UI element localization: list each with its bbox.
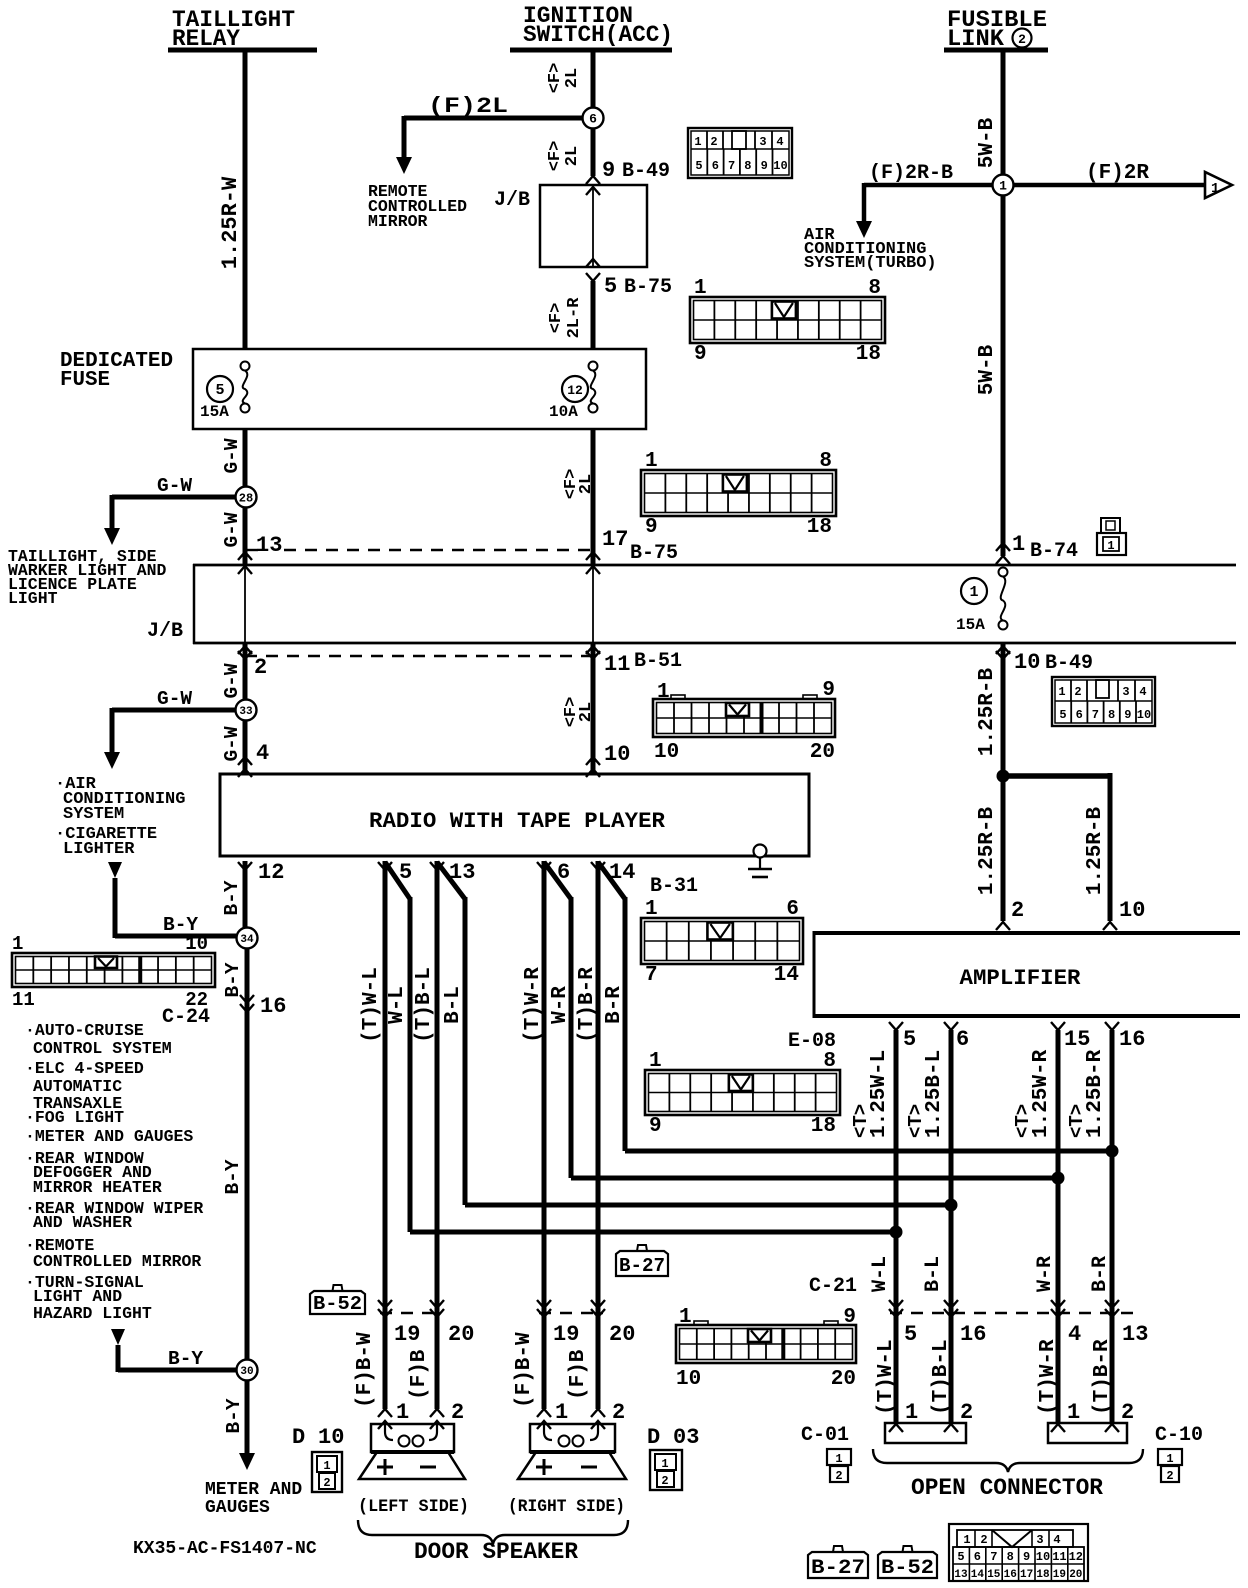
svg-text:1.25R-B: 1.25R-B: [1084, 806, 1107, 895]
svg-text:(LEFT SIDE): (LEFT SIDE): [358, 1497, 469, 1517]
wire 1.25R-B J/B to junction dot: [1001, 643, 1006, 776]
svg-text:14: 14: [971, 1569, 985, 1581]
svg-text:B-27: B-27: [811, 1557, 865, 1580]
svg-text:18: 18: [1036, 1569, 1050, 1581]
svg-text:5: 5: [904, 1322, 917, 1347]
connector pictorial B-49 (top): [688, 128, 792, 178]
svg-text:1: 1: [1211, 181, 1219, 197]
svg-text:2: 2: [960, 1400, 973, 1425]
svg-text:2L: 2L: [563, 146, 582, 166]
svg-text:1: 1: [969, 584, 978, 601]
svg-text:9: 9: [602, 158, 615, 183]
svg-text:6: 6: [786, 898, 799, 921]
svg-text:<F>: <F>: [547, 303, 566, 334]
pin 1 B-74 marker: [996, 532, 1078, 564]
svg-text:2: 2: [1074, 685, 1081, 699]
connector icon C-01: [827, 1449, 851, 1483]
wire G-W fuse 5 to node 28: [243, 429, 248, 488]
svg-text:03: 03: [673, 1425, 699, 1450]
wire 1.25R-B to amplifier pin 2: [996, 776, 1010, 930]
wire label 1.25R-B to pin 2: [976, 806, 999, 895]
svg-text:W-R: W-R: [549, 986, 572, 1024]
dedicated fuse box: [60, 349, 646, 429]
wire 5W-B fusible link to node 1: [1001, 50, 1006, 175]
svg-text:10: 10: [773, 159, 787, 173]
pin 12 marker radio: [238, 860, 284, 885]
svg-text:4: 4: [1053, 1533, 1060, 1547]
pin 5 marker radio: [378, 860, 412, 885]
svg-text:B-L: B-L: [922, 1256, 945, 1292]
svg-text:7: 7: [728, 159, 735, 173]
svg-text:12: 12: [258, 860, 284, 885]
svg-text:1: 1: [963, 1533, 970, 1547]
wire (F)2R to right sheet arrow: [1014, 183, 1205, 188]
svg-text:1: 1: [835, 1452, 842, 1466]
fuse 5 15A: [200, 362, 250, 422]
connector pictorial C-24: [12, 933, 215, 1029]
svg-text:1.25R-W: 1.25R-W: [218, 176, 243, 269]
svg-text:1: 1: [555, 1400, 568, 1425]
svg-text:1: 1: [1107, 539, 1114, 553]
svg-text:9: 9: [649, 1115, 662, 1138]
wire label (T)W-R lower: [1037, 1339, 1060, 1415]
speaker right (door speaker right side): [518, 1424, 626, 1479]
svg-text:1: 1: [1058, 685, 1065, 699]
svg-text:G-W: G-W: [221, 438, 243, 473]
svg-text:G-W: G-W: [157, 475, 192, 497]
label C-01: [801, 1424, 849, 1447]
svg-text:5: 5: [903, 1027, 916, 1052]
svg-text:·METER AND GAUGES: ·METER AND GAUGES: [25, 1127, 193, 1146]
svg-text:2: 2: [661, 1474, 668, 1488]
connector C-21 crossing marker x=896: [889, 1300, 903, 1317]
wire label B-Y below node 30: [223, 1398, 245, 1433]
svg-text:AND WASHER: AND WASHER: [33, 1213, 132, 1232]
svg-text:2: 2: [1166, 1469, 1173, 1483]
label METER AND GAUGES: [205, 1480, 302, 1518]
pin 10 marker: [586, 742, 630, 777]
connector C-21 crossing marker x=1058: [1051, 1300, 1065, 1317]
svg-text:10: 10: [185, 933, 208, 955]
connector C-21 crossing marker x=951: [944, 1300, 958, 1317]
svg-text:1: 1: [999, 179, 1007, 194]
svg-text:1: 1: [645, 450, 658, 473]
svg-text:15: 15: [987, 1569, 1001, 1581]
dashed connector line B-75 (13-17): [247, 549, 593, 551]
svg-text:B-75: B-75: [630, 542, 678, 565]
connector icon C-10: [1158, 1449, 1182, 1483]
label C-21: [809, 1275, 857, 1298]
svg-text:2: 2: [1018, 32, 1026, 47]
svg-text:B-R: B-R: [603, 986, 626, 1024]
branch G-W to air conditioning and cigarette lighter: [104, 688, 236, 769]
pin 16 amplifier: [1105, 1022, 1145, 1052]
wire label G-W above node 33: [221, 663, 243, 698]
svg-text:B-74: B-74: [1030, 540, 1078, 563]
svg-text:(RIGHT SIDE): (RIGHT SIDE): [508, 1497, 625, 1517]
svg-text:20: 20: [609, 1322, 635, 1347]
node 6 junction: [583, 108, 604, 129]
svg-text:J/B: J/B: [147, 620, 183, 643]
svg-text:CONTROLLED MIRROR: CONTROLLED MIRROR: [33, 1252, 201, 1271]
svg-text:15A: 15A: [956, 616, 985, 634]
wire label (T)1.25B-R: [1066, 1049, 1107, 1138]
fuse 12 10A: [549, 362, 598, 422]
svg-text:20: 20: [810, 741, 835, 764]
wire (F)2L dedicated fuse to J/B: [591, 429, 596, 565]
svg-text:B-Y: B-Y: [223, 1398, 245, 1433]
svg-text:W-L: W-L: [386, 986, 409, 1024]
connector pictorial B-75 (upper): [690, 277, 885, 366]
wire inside upper J/B: [592, 186, 594, 266]
svg-text:12: 12: [567, 383, 583, 398]
pins 19 20 left: [378, 1300, 474, 1347]
svg-text:(F)2L: (F)2L: [428, 94, 508, 119]
svg-text:C-01: C-01: [801, 1424, 849, 1447]
pin 6 marker radio: [537, 860, 570, 885]
label AIR CONDITIONING SYSTEM(TURBO): [804, 226, 937, 273]
svg-text:1.25B-R: 1.25B-R: [1084, 1049, 1107, 1138]
svg-text:20: 20: [1069, 1569, 1082, 1581]
svg-text:LIGHT: LIGHT: [8, 589, 58, 608]
sheet-link arrow (F)2R: [1086, 162, 1232, 198]
svg-text:6: 6: [1076, 708, 1083, 722]
svg-text:AMPLIFIER: AMPLIFIER: [960, 966, 1082, 991]
wire G-W J/B to node 33: [243, 643, 248, 700]
svg-text:10: 10: [1119, 898, 1145, 923]
svg-text:FUSE: FUSE: [60, 369, 110, 392]
svg-text:4: 4: [1068, 1322, 1081, 1347]
wire label (T)W-L lower: [875, 1339, 898, 1415]
junction block J/B (upper): [494, 185, 647, 267]
label diagram number KX35-AC-FS1407-NC: [133, 1539, 317, 1559]
svg-text:(F)B: (F)B: [567, 1349, 590, 1400]
wire label (T)W-R: [522, 967, 545, 1043]
wire label B-R: [1089, 1256, 1112, 1292]
svg-text:G-W: G-W: [157, 688, 192, 710]
svg-text:10: 10: [654, 741, 679, 764]
label DOOR SPEAKER: [414, 1539, 578, 1565]
svg-text:3: 3: [759, 135, 766, 149]
svg-text:13: 13: [1122, 1322, 1148, 1347]
svg-text:10: 10: [1036, 1550, 1050, 1564]
svg-text:4: 4: [256, 741, 269, 766]
svg-text:6: 6: [974, 1550, 981, 1564]
svg-text:MIRROR: MIRROR: [368, 212, 428, 231]
connector housing label B-52 (left speakers): [310, 1285, 365, 1315]
speaker left (door speaker left side): [359, 1424, 465, 1479]
wire label W-L: [386, 986, 409, 1024]
svg-text:2: 2: [254, 655, 267, 680]
svg-text:19: 19: [1053, 1569, 1066, 1581]
connector housing label B-52 (bottom): [878, 1546, 937, 1580]
svg-text:METER AND: METER AND: [205, 1480, 302, 1500]
open connector pins left: [889, 1400, 973, 1432]
svg-text:5W-B: 5W-B: [976, 117, 999, 168]
svg-text:B-R: B-R: [1089, 1256, 1112, 1292]
wire (F)2L node 6 to junction block: [591, 128, 596, 176]
svg-text:(T)B-L: (T)B-L: [413, 967, 436, 1043]
svg-text:13: 13: [954, 1569, 968, 1581]
label systems list: [25, 1021, 203, 1323]
svg-text:8: 8: [1108, 708, 1115, 722]
svg-text:5: 5: [957, 1550, 964, 1564]
svg-text:HAZARD LIGHT: HAZARD LIGHT: [33, 1304, 152, 1323]
svg-text:2: 2: [835, 1469, 842, 1483]
svg-text:(T)W-R: (T)W-R: [1037, 1339, 1060, 1415]
wire branch diagonal from radio x=385: [385, 862, 903, 1239]
svg-text:C-10: C-10: [1155, 1424, 1203, 1447]
svg-text:2: 2: [612, 1400, 625, 1425]
svg-text:6: 6: [589, 112, 597, 127]
wire stub J/B pin 17 inside: [592, 566, 594, 643]
svg-text:11: 11: [604, 652, 630, 677]
svg-text:7: 7: [990, 1550, 997, 1564]
node 34 junction: [237, 928, 258, 949]
svg-text:16: 16: [260, 994, 286, 1019]
svg-text:B-52: B-52: [313, 1293, 362, 1315]
wire label W-L: [869, 1256, 892, 1292]
svg-text:(F)B-W: (F)B-W: [513, 1332, 536, 1408]
pin 10 amplifier marker: [1119, 898, 1145, 923]
svg-text:(F)2R-B: (F)2R-B: [869, 162, 953, 185]
svg-text:5: 5: [1059, 708, 1066, 722]
svg-text:1: 1: [649, 1050, 662, 1073]
fuse 1 15A in J/B: [956, 568, 1008, 635]
svg-text:E-08: E-08: [788, 1030, 836, 1053]
wire label W-R: [549, 986, 572, 1024]
svg-text:5: 5: [604, 274, 617, 299]
svg-text:11: 11: [12, 989, 35, 1011]
svg-text:·FOG LIGHT: ·FOG LIGHT: [25, 1108, 124, 1127]
label TAILLIGHT SIDE MARKER LIGHT: [8, 547, 167, 608]
svg-text:GAUGES: GAUGES: [205, 1498, 270, 1518]
wire label (F)2L-R: [547, 297, 584, 339]
svg-text:B-27: B-27: [619, 1255, 665, 1277]
pin 17 B-75 marker: [586, 527, 678, 574]
svg-text:15: 15: [1064, 1027, 1090, 1052]
svg-text:1: 1: [694, 135, 701, 149]
svg-text:(T)W-L: (T)W-L: [875, 1339, 898, 1415]
svg-text:B-51: B-51: [634, 650, 682, 673]
wire label G-W below node 28: [221, 512, 243, 547]
svg-text:16: 16: [960, 1322, 986, 1347]
svg-text:CONTROL SYSTEM: CONTROL SYSTEM: [33, 1039, 172, 1058]
svg-text:9: 9: [822, 679, 835, 702]
svg-text:17: 17: [1020, 1569, 1033, 1581]
connector pictorial bottom (20-pin): [949, 1524, 1088, 1581]
svg-text:1.25W-R: 1.25W-R: [1030, 1049, 1053, 1138]
svg-text:(T)B-R: (T)B-R: [1091, 1339, 1114, 1415]
wire label (F)B right: [567, 1349, 590, 1400]
component TAILLIGHT RELAY header: [168, 7, 317, 52]
svg-text:19: 19: [394, 1322, 420, 1347]
svg-text:1: 1: [694, 277, 707, 300]
svg-text:B-75: B-75: [624, 276, 672, 299]
svg-text:1: 1: [396, 1400, 409, 1425]
svg-text:4: 4: [776, 135, 783, 149]
wire (F)2L branch to remote controlled mirror: [396, 94, 582, 174]
svg-text:1: 1: [12, 933, 23, 955]
pin 6 amplifier: [944, 1022, 969, 1052]
svg-text:(T)W-R: (T)W-R: [522, 967, 545, 1043]
connector icon B-74: [1097, 518, 1126, 555]
connector pictorial C-21: [676, 1306, 856, 1391]
svg-text:18: 18: [811, 1115, 836, 1138]
svg-text:(T)B-L: (T)B-L: [930, 1339, 953, 1415]
svg-text:9: 9: [1124, 708, 1131, 722]
wire label (T)1.25W-R: [1012, 1049, 1053, 1138]
wire branch diagonal from radio x=437: [437, 862, 958, 1212]
pin 2 marker: [238, 646, 267, 680]
pin 13 marker: [238, 533, 282, 574]
component IGNITION SWITCH(ACC) header: [510, 3, 673, 50]
wire label (T)B-L lower: [930, 1339, 953, 1415]
wire label (T)B-R lower: [1091, 1339, 1114, 1415]
brace door speaker: [358, 1520, 628, 1544]
wire label (T)W-L: [360, 967, 383, 1043]
svg-text:1.25B-L: 1.25B-L: [923, 1050, 946, 1138]
svg-text:20: 20: [448, 1322, 474, 1347]
wire label B-L: [922, 1256, 945, 1292]
svg-text:1: 1: [679, 1306, 692, 1329]
wire label B-R: [603, 986, 626, 1024]
label C-10: [1155, 1424, 1203, 1447]
svg-text:1: 1: [645, 898, 658, 921]
wire 5W-B node 1 to J/B: [1001, 195, 1006, 556]
wire label (F)B-W right: [513, 1332, 536, 1408]
svg-text:8: 8: [823, 1050, 836, 1073]
pin 5 amplifier: [889, 1022, 916, 1052]
svg-text:30: 30: [240, 1366, 253, 1378]
connector pictorial B-75 (lower): [641, 450, 836, 539]
svg-text:W-R: W-R: [1034, 1256, 1057, 1292]
svg-text:G-W: G-W: [221, 663, 243, 698]
wire B-Y node 30 to meter and gauges: [239, 1380, 255, 1470]
svg-text:LIGHTER: LIGHTER: [63, 840, 135, 859]
svg-text:C-24: C-24: [162, 1006, 210, 1029]
wire (F)2L J/B to radio pin 10: [591, 643, 596, 774]
label AIR CONDITIONING SYSTEM / CIGARETTE LIGHTER: [55, 775, 185, 859]
amplifier box: [814, 931, 1240, 1018]
svg-text:2L: 2L: [577, 474, 596, 494]
svg-text:12: 12: [1069, 1550, 1083, 1564]
svg-text:11: 11: [1052, 1550, 1066, 1564]
svg-text:1.25R-B: 1.25R-B: [976, 806, 999, 895]
svg-text:D: D: [292, 1425, 305, 1450]
svg-text:1: 1: [1067, 1400, 1080, 1425]
wire G-W node 28 to J/B pin 13: [243, 507, 248, 565]
svg-text:2: 2: [1011, 898, 1024, 923]
wire 1.25R-B to amplifier pin 10: [1103, 773, 1117, 930]
svg-text:SWITCH(ACC): SWITCH(ACC): [523, 22, 673, 48]
svg-text:18: 18: [807, 516, 832, 539]
svg-text:9: 9: [645, 516, 658, 539]
pin 10 B-49 marker: [996, 646, 1093, 675]
svg-text:(T)B-R: (T)B-R: [576, 967, 599, 1043]
svg-text:G-W: G-W: [221, 512, 243, 547]
label D 10: [292, 1425, 344, 1450]
svg-text:2: 2: [451, 1400, 464, 1425]
wire label 1.25R-W: [218, 176, 243, 269]
wire amplifier pin 15 to open connector: [1056, 1030, 1061, 1423]
open connector pins right: [1051, 1400, 1134, 1432]
junction dot 1.25R-B split: [997, 770, 1111, 783]
svg-text:8: 8: [1007, 1550, 1014, 1564]
svg-text:B-Y: B-Y: [222, 1159, 244, 1194]
label D 03: [647, 1425, 699, 1450]
svg-text:1.25R-B: 1.25R-B: [976, 667, 999, 756]
svg-text:2: 2: [980, 1533, 987, 1547]
connector icon D-10: [312, 1452, 342, 1492]
wire label W-R: [1034, 1256, 1057, 1292]
svg-text:8: 8: [868, 277, 881, 300]
pin labels C-21: [904, 1322, 1148, 1347]
svg-text:5: 5: [695, 159, 702, 173]
wire label G-W above node 28: [221, 438, 243, 473]
wire label (F)B left: [408, 1349, 431, 1400]
svg-text:10A: 10A: [549, 403, 578, 421]
wire (F)2R-B branch to air conditioning: [856, 162, 992, 238]
connector icon D-03: [650, 1450, 682, 1490]
svg-text:3: 3: [1122, 685, 1129, 699]
label OPEN CONNECTOR: [911, 1475, 1103, 1501]
svg-text:1: 1: [1166, 1452, 1173, 1466]
wire amplifier pin 5 to open connector: [894, 1030, 899, 1423]
wire label (F)2L below node 6: [546, 141, 582, 172]
wire label B-Y mid: [222, 1159, 244, 1194]
pins 19 20 right: [537, 1300, 635, 1347]
connector pictorial E-08: [645, 1030, 840, 1138]
svg-text:B-Y: B-Y: [168, 1348, 203, 1370]
svg-text:17: 17: [602, 527, 628, 552]
dashed connector line C-21: [890, 1312, 1135, 1314]
pin 15 amplifier: [1051, 1022, 1090, 1052]
wire speaker straight from radio x=544: [542, 861, 547, 1409]
svg-text:D: D: [647, 1425, 660, 1450]
svg-text:1: 1: [661, 1457, 668, 1471]
wire label B-Y above node 34: [221, 880, 243, 915]
svg-text:10: 10: [1137, 708, 1151, 722]
radio with tape player box: [220, 774, 809, 856]
wire label (T)B-L: [413, 967, 436, 1043]
node 1 junction: [993, 175, 1014, 196]
svg-text:9: 9: [1023, 1550, 1030, 1564]
svg-text:MIRROR HEATER: MIRROR HEATER: [33, 1178, 162, 1197]
label (RIGHT SIDE): [508, 1497, 625, 1517]
svg-text:3: 3: [1036, 1533, 1043, 1547]
wire label (T)1.25W-L: [850, 1050, 891, 1138]
wire label B-Y below node 34: [222, 962, 244, 997]
svg-text:10: 10: [1014, 650, 1040, 675]
pin 14 marker radio: [591, 860, 635, 885]
svg-text:16: 16: [1119, 1027, 1145, 1052]
svg-text:8: 8: [744, 159, 751, 173]
svg-text:34: 34: [240, 934, 254, 946]
junction block J/B (main): [147, 564, 1236, 644]
wire label B-L: [442, 986, 465, 1024]
svg-text:B-52: B-52: [881, 1557, 934, 1580]
wire branch diagonal from radio x=598: [598, 862, 1119, 1158]
connector C-21 crossing marker x=1112: [1105, 1300, 1119, 1317]
wire label 1.25R-B upper: [976, 667, 999, 756]
svg-text:9: 9: [843, 1306, 856, 1329]
svg-text:1.25W-L: 1.25W-L: [868, 1050, 891, 1138]
svg-text:5W-B: 5W-B: [976, 344, 999, 395]
svg-text:G-W: G-W: [221, 726, 243, 761]
node 28 junction: [236, 487, 257, 508]
svg-text:14: 14: [774, 964, 799, 987]
